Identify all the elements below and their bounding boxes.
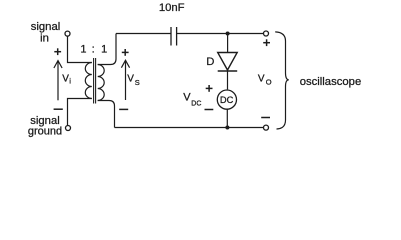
transformer T1 secondary winding xyxy=(98,65,105,101)
svg-text:1: 1 xyxy=(101,44,107,56)
wire: top junction to output + terminal xyxy=(228,33,264,35)
terminal: signal in xyxy=(65,31,70,36)
svg-text:1: 1 xyxy=(80,44,86,56)
wire: bottom rail xyxy=(115,127,264,129)
svg-text:V: V xyxy=(183,92,191,104)
wire: secondary top to top rail xyxy=(98,34,116,65)
plus sign of V_s xyxy=(122,49,129,56)
label V_O xyxy=(258,74,272,87)
svg-text:i: i xyxy=(69,78,71,85)
svg-text:ground: ground xyxy=(28,126,62,138)
plus sign of V_i xyxy=(54,48,61,55)
wire: primary bottom to signal-ground terminal xyxy=(68,99,92,126)
svg-text:S: S xyxy=(135,78,140,87)
plus sign of V_DC xyxy=(206,85,213,92)
label "signal ground" xyxy=(28,115,62,138)
svg-text:D: D xyxy=(206,56,214,68)
svg-text:DC: DC xyxy=(191,101,201,108)
svg-text:V: V xyxy=(258,74,265,85)
transformer T1 primary winding xyxy=(85,63,91,99)
wire: capacitor to top junction xyxy=(177,33,228,35)
svg-text:O: O xyxy=(266,78,272,87)
node: bottom junction xyxy=(225,126,229,130)
wire: secondary bottom to bottom rail xyxy=(98,101,115,128)
wire: top junction down to diode xyxy=(227,36,229,53)
svg-text:10nF: 10nF xyxy=(159,2,185,14)
wire: DC source to bottom junction xyxy=(226,109,228,127)
svg-text:V: V xyxy=(62,74,69,85)
wire: diode to DC source xyxy=(227,71,229,89)
svg-text:DC: DC xyxy=(220,95,234,105)
capacitor C1 plates xyxy=(171,27,177,46)
minus sign of V_i xyxy=(54,108,63,110)
terminal: output + xyxy=(264,31,269,36)
node: top junction xyxy=(226,32,230,36)
label V_i xyxy=(62,74,71,86)
DC source circle xyxy=(217,90,236,109)
minus sign of V_DC xyxy=(205,109,214,111)
svg-text:oscillascope: oscillascope xyxy=(300,76,362,88)
label 1 : 1 xyxy=(80,44,107,56)
transformer core xyxy=(94,58,96,104)
terminal: output - xyxy=(264,125,269,130)
minus sign of V_O xyxy=(261,117,270,119)
curly brace xyxy=(275,32,289,129)
terminal: signal ground xyxy=(66,126,71,131)
wire: top rail, transformer to capacitor xyxy=(116,33,171,35)
label "signal in" xyxy=(31,21,61,44)
minus sign of V_s xyxy=(119,108,128,110)
svg-text:in: in xyxy=(40,33,49,45)
svg-text:signal: signal xyxy=(31,21,61,33)
voltage arrow V_i xyxy=(54,61,62,101)
label V_DC xyxy=(183,92,201,108)
plus sign of V_O xyxy=(263,39,270,46)
label V_s xyxy=(127,74,140,88)
diode D cathode bar xyxy=(218,70,238,72)
voltage arrow V_s xyxy=(121,60,129,100)
svg-text:V: V xyxy=(127,74,134,85)
svg-text::: : xyxy=(92,44,95,56)
wire: signal-in terminal down and right to primary top xyxy=(68,36,92,62)
diode D triangle xyxy=(218,53,238,71)
